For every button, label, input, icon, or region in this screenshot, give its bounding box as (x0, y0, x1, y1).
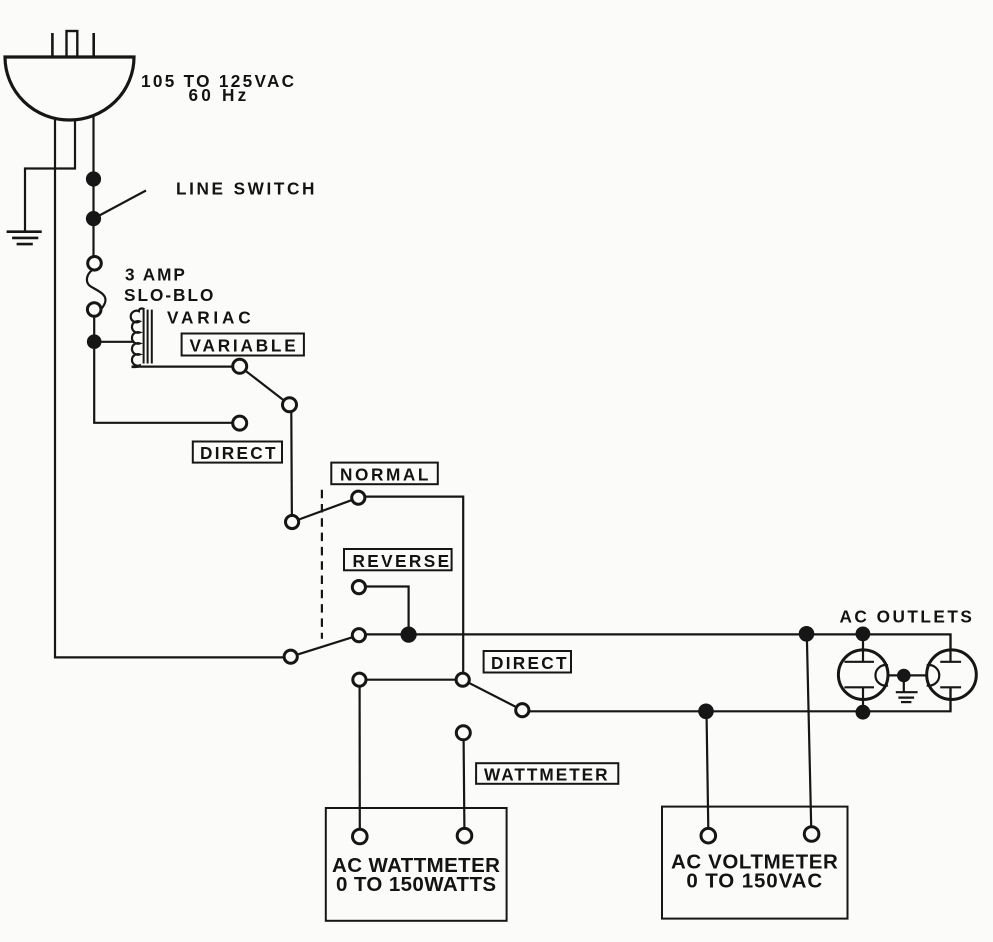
voltmeter M2 left terminal (701, 828, 716, 843)
label box VARIABLE (182, 334, 304, 356)
svg-text:DIRECT: DIRECT (491, 653, 569, 673)
switch S3b blade (291, 635, 359, 657)
switch S2 pole contact (283, 398, 297, 412)
svg-text:DIRECT: DIRECT (200, 443, 278, 463)
wire: REVERSE contact over and down to output junction (365, 587, 408, 630)
junction dot: outlet J1 top (856, 627, 871, 642)
svg-text:REVERSE: REVERSE (353, 551, 452, 571)
ground symbol GND2 (outlet ground) (896, 680, 918, 702)
wire: variac bottom to VARIABLE contact (132, 366, 234, 368)
fuse F1 bottom terminal (87, 303, 101, 317)
main output wire to AC outlets (top run) (365, 634, 950, 661)
svg-text:0 TO 150VAC: 0 TO 150VAC (686, 869, 823, 892)
wattmeter M1 label text (332, 854, 500, 896)
junction dot: fuse to variac tap (87, 334, 102, 349)
wire: tap junction to variac winding (94, 341, 133, 343)
wire: S4 left contact to S4 common (359, 679, 462, 681)
voltmeter M2 box (662, 807, 848, 919)
svg-text:SLO-BLO: SLO-BLO (124, 285, 215, 305)
outlet J2 top contact stem and bar (940, 634, 961, 662)
wattmeter M1 right terminal (457, 828, 472, 843)
switch S3a NORMAL contact (352, 491, 365, 504)
label 3 AMP SLO-BLO (124, 264, 215, 305)
switch S1 lower contact dot (86, 211, 101, 226)
junction dot: voltmeter left tap (698, 704, 714, 720)
variac T1 core lines (144, 310, 152, 364)
label box NORMAL (331, 463, 438, 485)
svg-text:AC OUTLETS: AC OUTLETS (840, 607, 975, 627)
label box DIRECT (wattmeter bypass) (484, 651, 571, 673)
wire: plug hot conductor down left side to S3b contact (55, 118, 291, 657)
wire: outlet ground link (888, 674, 927, 676)
voltmeter M2 label text (671, 850, 838, 892)
outlet J1 bottom contact stem and bar (844, 687, 874, 712)
label box DIRECT (variac bypass) (193, 442, 282, 464)
switch S3a blade (292, 498, 358, 522)
junction dot: reverse tie to output (401, 627, 417, 643)
svg-text:LINE SWITCH: LINE SWITCH (176, 179, 317, 199)
wire: voltmeter left tap down (707, 711, 709, 828)
outlet J1 top contact stem and bar (844, 634, 874, 662)
switch S4 blade (463, 680, 523, 711)
wire: NORMAL contact over and down to S4 common (365, 497, 463, 674)
label 105 TO 125VAC 60 Hz (141, 71, 296, 105)
svg-text:NORMAL: NORMAL (340, 465, 431, 485)
junction dot: outlet J1 bottom (856, 705, 871, 720)
wire: S2 pole down to S3a blade contact (290, 412, 293, 522)
outlet J2 bottom contact stem and bar (940, 687, 961, 711)
switch S4 left contact (353, 673, 366, 686)
bottom return wire to AC outlets (529, 687, 951, 711)
wattmeter M1 box (326, 808, 507, 921)
voltmeter M2 right terminal (804, 827, 819, 842)
switch S4 common contact (456, 673, 469, 686)
mechanical gang link (dashed) (321, 490, 323, 639)
ground symbol GND1 (power entry earth) (7, 232, 42, 244)
svg-text:WATTMETER: WATTMETER (484, 765, 610, 785)
variac T1 winding (131, 309, 145, 367)
wire: voltmeter right tap down (807, 634, 811, 827)
fuse F1 top terminal (88, 257, 102, 271)
wire: WATTMETER contact down to wattmeter terminal (463, 740, 466, 829)
switch S1 LINE SWITCH upper contact dot (86, 171, 101, 186)
switch S2 blade (variable to pole) (240, 366, 290, 404)
switch S2 DIRECT contact (233, 416, 247, 430)
ac plug P1 (5, 31, 134, 120)
svg-text:VARIAC: VARIAC (167, 307, 254, 327)
junction dot: outlet ground tie (897, 669, 911, 683)
switch S4 DIRECT contact (516, 704, 529, 717)
label box WATTMETER (476, 763, 618, 784)
wire: tap junction down and right to DIRECT contact (94, 349, 233, 423)
fuse F1 S-curve element (87, 270, 106, 310)
outlet J1 ground arc (875, 665, 888, 686)
label box REVERSE (344, 549, 452, 571)
wattmeter M1 left terminal (353, 829, 368, 844)
svg-text:3 AMP: 3 AMP (125, 264, 187, 284)
outlet J2 body (927, 650, 977, 700)
switch S1 blade (94, 191, 147, 219)
svg-text:60 Hz: 60 Hz (189, 85, 250, 105)
wire: S4 left contact down to wattmeter terminal (359, 686, 361, 829)
svg-text:0 TO 150WATTS: 0 TO 150WATTS (336, 873, 497, 896)
switch S4 WATTMETER contact (456, 726, 470, 740)
outlet J1 body (838, 650, 888, 700)
svg-text:VARIABLE: VARIABLE (190, 335, 299, 355)
switch S2 VARIABLE contact (233, 359, 247, 373)
switch S3b REVERSE contact (352, 581, 365, 594)
outlet J2 ground arc (927, 665, 940, 686)
switch S3b lower blade contact (284, 650, 297, 663)
junction dot: voltmeter right tap on top run (799, 626, 815, 642)
switch S3b common contact (352, 629, 365, 642)
wire: plug ground pin jog to earth ground (25, 120, 75, 232)
switch S3a pole contact (286, 515, 299, 528)
wire: fuse to tap junction (93, 316, 95, 342)
wire: plug neutral conductor to line switch and fuse (92, 116, 94, 257)
